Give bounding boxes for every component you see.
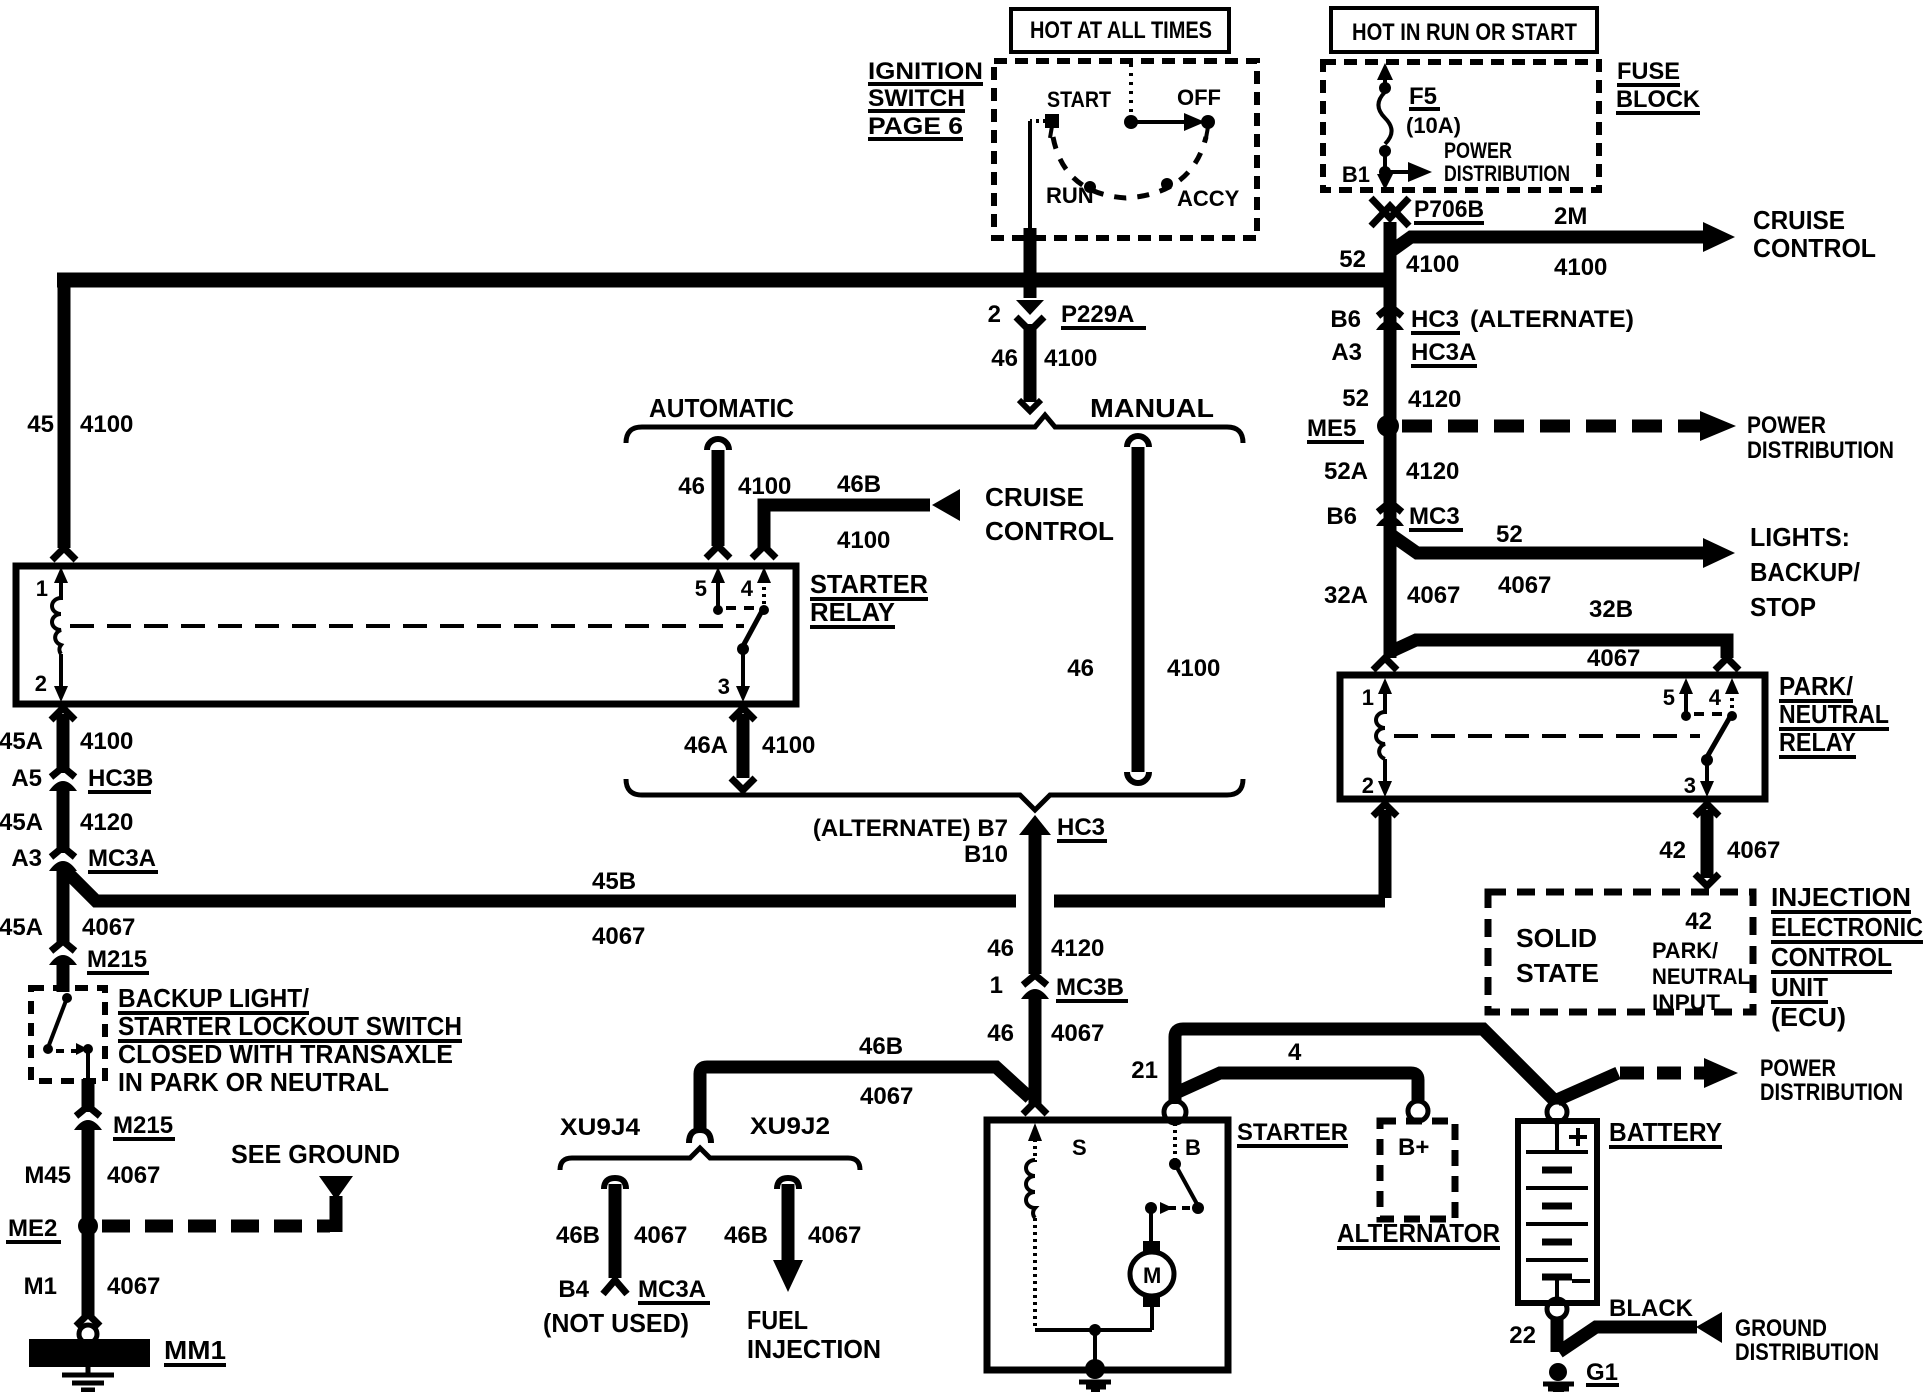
- svg-text:SOLID: SOLID: [1516, 923, 1597, 953]
- svg-text:HC3: HC3: [1057, 814, 1105, 841]
- svg-text:FUSE: FUSE: [1617, 58, 1680, 85]
- svg-text:(ALTERNATE) B7: (ALTERNATE) B7: [813, 815, 1008, 842]
- svg-text:SWITCH: SWITCH: [868, 85, 965, 112]
- svg-text:ALTERNATOR: ALTERNATOR: [1337, 1218, 1500, 1248]
- ground MM1: [29, 1339, 150, 1367]
- wire branch 32B to relay pin 4: [1390, 640, 1727, 658]
- svg-text:4067: 4067: [634, 1222, 687, 1249]
- svg-text:46A: 46A: [684, 732, 728, 759]
- svg-text:2: 2: [1362, 773, 1374, 798]
- svg-text:45A: 45A: [0, 914, 43, 941]
- svg-text:BATTERY: BATTERY: [1609, 1117, 1722, 1147]
- svg-text:4: 4: [1288, 1039, 1302, 1066]
- connector HC3 lower: [1019, 815, 1051, 835]
- wire main vertical from P706B to park/neutral relay: [1384, 222, 1397, 658]
- connector P706B: [1371, 196, 1484, 226]
- svg-text:46: 46: [987, 935, 1014, 962]
- svg-text:5: 5: [695, 576, 707, 601]
- svg-text:46: 46: [1067, 655, 1094, 682]
- starter motor M: [1149, 1208, 1153, 1247]
- svg-text:1: 1: [990, 972, 1003, 999]
- label BACKUP LIGHT / STARTER LOCKOUT SWITCH ...: [118, 983, 462, 1097]
- svg-text:STARTER: STARTER: [1237, 1119, 1348, 1146]
- wire dashed to power distribution: [1402, 420, 1700, 433]
- svg-text:4100: 4100: [1406, 251, 1459, 278]
- svg-text:MC3A: MC3A: [88, 845, 156, 872]
- pin B node: [1164, 1101, 1186, 1123]
- battery plates: [1555, 1122, 1559, 1150]
- svg-text:1: 1: [36, 576, 48, 601]
- wire to motor bottom: [1035, 1328, 1152, 1332]
- starter internal ground: [1093, 1330, 1097, 1362]
- switch contacts: [62, 993, 72, 1003]
- svg-text:IN PARK OR NEUTRAL: IN PARK OR NEUTRAL: [118, 1067, 389, 1097]
- svg-text:CONTROL: CONTROL: [985, 516, 1114, 546]
- node: [1379, 82, 1391, 94]
- svg-text:1: 1: [1362, 685, 1374, 710]
- wire below switch: [82, 1079, 95, 1112]
- svg-text:M1: M1: [24, 1273, 57, 1300]
- svg-text:ACCY: ACCY: [1177, 186, 1240, 211]
- svg-text:4100: 4100: [1044, 345, 1097, 372]
- svg-text:4067: 4067: [1587, 645, 1640, 672]
- svg-text:ME5: ME5: [1307, 415, 1356, 442]
- svg-text:GROUND: GROUND: [1735, 1315, 1827, 1342]
- svg-text:PARK/: PARK/: [1652, 938, 1718, 963]
- bracket lower (alternate join): [626, 779, 1243, 810]
- node: [1379, 145, 1391, 157]
- svg-text:M215: M215: [87, 946, 147, 973]
- svg-text:XU9J4: XU9J4: [560, 1114, 641, 1141]
- svg-text:(NOT USED): (NOT USED): [543, 1308, 689, 1338]
- svg-text:52: 52: [1339, 246, 1366, 273]
- dashed actuator linkage: [70, 624, 744, 628]
- svg-text:32B: 32B: [1589, 596, 1633, 623]
- svg-text:(ECU): (ECU): [1771, 1002, 1846, 1032]
- fuse block dashed box: [1323, 62, 1599, 190]
- cruise triangle: [932, 489, 960, 521]
- wire HC3 down crossing 45B: [1029, 830, 1042, 974]
- pin 2: [1383, 759, 1387, 783]
- svg-text:RUN: RUN: [1046, 183, 1094, 208]
- svg-text:46B: 46B: [556, 1222, 600, 1249]
- wire 21 from starter B to battery: [1175, 1029, 1555, 1104]
- starter box: [987, 1120, 1228, 1370]
- svg-text:A5: A5: [11, 765, 42, 792]
- svg-text:DISTRIBUTION: DISTRIBUTION: [1444, 161, 1570, 186]
- label box HOT AT ALL TIMES: [1011, 9, 1229, 52]
- svg-text:3: 3: [718, 674, 730, 699]
- svg-text:4067: 4067: [808, 1222, 861, 1249]
- svg-text:STARTER: STARTER: [810, 569, 928, 599]
- switch blade: [1707, 717, 1730, 757]
- connector P229A: [988, 300, 1146, 331]
- ignition rotor pivot node: [1124, 115, 1138, 129]
- svg-text:M215: M215: [113, 1112, 173, 1139]
- pin 2: [59, 654, 63, 687]
- svg-text:4100: 4100: [1167, 655, 1220, 682]
- connector at starter S: [1023, 1102, 1047, 1114]
- svg-text:ELECTRONIC: ELECTRONIC: [1771, 912, 1923, 942]
- svg-text:4100: 4100: [80, 728, 133, 755]
- node ACCY: [1161, 178, 1173, 190]
- svg-text:52A: 52A: [1324, 458, 1368, 485]
- svg-text:START: START: [1047, 87, 1111, 112]
- dashed contact link: [1694, 712, 1726, 716]
- svg-text:B10: B10: [964, 841, 1008, 868]
- label box HOT IN RUN OR START: [1331, 8, 1597, 52]
- node battery +: [1547, 1102, 1567, 1122]
- svg-text:B1: B1: [1342, 162, 1370, 187]
- label STARTER RELAY: [810, 569, 928, 629]
- svg-text:NEUTRAL: NEUTRAL: [1779, 699, 1889, 729]
- wire M45 4067: [82, 1126, 95, 1218]
- label FUSE BLOCK: [1616, 58, 1701, 115]
- svg-text:POWER: POWER: [1747, 412, 1826, 439]
- svg-text:4067: 4067: [1407, 582, 1460, 609]
- svg-text:STARTER LOCKOUT SWITCH: STARTER LOCKOUT SWITCH: [118, 1011, 462, 1041]
- svg-text:M45: M45: [24, 1162, 71, 1189]
- svg-text:2M: 2M: [1554, 203, 1587, 230]
- svg-text:4120: 4120: [1051, 935, 1104, 962]
- pin 5: [1679, 678, 1693, 694]
- svg-text:A3: A3: [11, 845, 42, 872]
- svg-text:HC3: HC3: [1411, 306, 1459, 333]
- svg-text:B6: B6: [1326, 503, 1357, 530]
- connector MC3: [1326, 502, 1463, 532]
- svg-text:RELAY: RELAY: [1779, 727, 1856, 757]
- pin 3: [1705, 760, 1709, 782]
- relay coil: [1376, 712, 1385, 759]
- svg-text:4067: 4067: [1051, 1020, 1104, 1047]
- svg-text:CONTROL: CONTROL: [1753, 233, 1876, 263]
- label PARK/ NEUTRAL RELAY: [1779, 671, 1889, 759]
- svg-text:4120: 4120: [1408, 386, 1461, 413]
- svg-text:46: 46: [991, 345, 1018, 372]
- svg-text:RELAY: RELAY: [810, 597, 895, 627]
- park/neutral relay box: [1340, 675, 1765, 799]
- svg-text:HOT AT ALL TIMES: HOT AT ALL TIMES: [1030, 17, 1212, 44]
- ground G1: [1549, 1363, 1567, 1381]
- svg-text:DISTRIBUTION: DISTRIBUTION: [1760, 1079, 1903, 1106]
- svg-text:XU9J2: XU9J2: [750, 1113, 830, 1140]
- svg-text:4: 4: [741, 576, 754, 601]
- pin 4: [1725, 678, 1739, 694]
- svg-text:STATE: STATE: [1516, 958, 1599, 988]
- svg-text:42: 42: [1659, 837, 1686, 864]
- wire dotted feed from box top: [1129, 64, 1133, 116]
- svg-text:IGNITION: IGNITION: [868, 58, 983, 85]
- svg-text:46: 46: [987, 1020, 1014, 1047]
- svg-text:3: 3: [1684, 773, 1696, 798]
- node RUN: [1084, 181, 1096, 193]
- svg-text:4120: 4120: [80, 809, 133, 836]
- svg-text:MC3B: MC3B: [1056, 974, 1124, 1001]
- connector at MM1: [76, 1314, 100, 1326]
- pin 1: [54, 567, 68, 583]
- svg-text:4067: 4067: [1498, 572, 1551, 599]
- starter relay box: [16, 566, 796, 704]
- svg-text:HOT IN RUN OR START: HOT IN RUN OR START: [1352, 19, 1577, 46]
- ignition switch dashed box: [994, 61, 1257, 238]
- svg-text:2: 2: [35, 671, 47, 696]
- svg-text:DISTRIBUTION: DISTRIBUTION: [1747, 437, 1894, 464]
- wire 46B 4067 to fuel injection: [777, 1178, 799, 1189]
- connector HC3B: [11, 765, 153, 794]
- svg-text:MANUAL: MANUAL: [1090, 393, 1214, 423]
- dashed actuator linkage: [1394, 734, 1700, 738]
- wire arrow to power distribution: [1385, 170, 1410, 174]
- wire battery node to power distribution: [1557, 1073, 1618, 1100]
- svg-text:B+: B+: [1398, 1134, 1429, 1161]
- svg-text:OFF: OFF: [1177, 85, 1221, 110]
- connector M215 lower: [74, 1106, 175, 1141]
- pin 5: [711, 567, 725, 583]
- wire 4 to alternator B+: [1178, 1073, 1418, 1100]
- node ME2: [78, 1216, 98, 1236]
- svg-text:F5: F5: [1409, 83, 1437, 110]
- see ground triangle: [319, 1176, 353, 1200]
- node B1 junction: [1379, 166, 1391, 178]
- svg-text:CRUISE: CRUISE: [1753, 205, 1845, 235]
- svg-text:BACKUP LIGHT/: BACKUP LIGHT/: [118, 983, 309, 1013]
- wire branch to ground distribution: [1559, 1327, 1697, 1352]
- node OFF terminal: [1201, 115, 1215, 129]
- svg-text:CLOSED WITH TRANSAXLE: CLOSED WITH TRANSAXLE: [118, 1039, 453, 1069]
- svg-text:A3: A3: [1331, 339, 1362, 366]
- relay coil: [52, 598, 61, 654]
- svg-text:P706B: P706B: [1414, 196, 1484, 223]
- svg-text:PARK/: PARK/: [1779, 671, 1853, 701]
- svg-text:HC3B: HC3B: [88, 765, 153, 792]
- wire 46A 4100 from relay pin 3: [731, 708, 755, 720]
- svg-text:INPUT: INPUT: [1652, 990, 1721, 1015]
- svg-text:52: 52: [1342, 385, 1369, 412]
- svg-text:4067: 4067: [107, 1273, 160, 1300]
- svg-text:4067: 4067: [592, 923, 645, 950]
- starter solenoid coil: [1033, 1139, 1037, 1162]
- svg-text:DISTRIBUTION: DISTRIBUTION: [1735, 1339, 1879, 1366]
- svg-text:32A: 32A: [1324, 582, 1368, 609]
- svg-text:4067: 4067: [860, 1083, 913, 1110]
- svg-text:46B: 46B: [859, 1033, 903, 1060]
- wire rotor arm to OFF: [1131, 120, 1186, 124]
- svg-text:45B: 45B: [592, 868, 636, 895]
- svg-text:S: S: [1072, 1135, 1087, 1160]
- connector MC3B: [990, 972, 1128, 1003]
- svg-text:MC3A: MC3A: [638, 1276, 706, 1303]
- wire dashed to see ground: [102, 1220, 330, 1233]
- svg-text:4100: 4100: [837, 527, 890, 554]
- svg-text:HC3A: HC3A: [1411, 339, 1476, 366]
- wire branch to lights backup/stop: [1390, 534, 1705, 553]
- svg-text:4100: 4100: [1554, 254, 1607, 281]
- svg-text:SEE GROUND: SEE GROUND: [231, 1139, 400, 1169]
- svg-text:INJECTION: INJECTION: [747, 1334, 881, 1364]
- svg-text:POWER: POWER: [1444, 138, 1512, 163]
- wire main horizontal bus 45/4100: [57, 273, 1390, 288]
- connector M215 upper: [49, 941, 149, 975]
- wire 46 4067 down to starter: [1029, 995, 1042, 1104]
- wire left vertical drop: [58, 280, 71, 548]
- svg-text:AUTOMATIC: AUTOMATIC: [649, 393, 794, 423]
- svg-text:INJECTION: INJECTION: [1771, 882, 1911, 912]
- dashed contact link: [726, 606, 758, 610]
- svg-text:46B: 46B: [837, 471, 881, 498]
- svg-text:G1: G1: [1586, 1359, 1618, 1386]
- connector HC3 / HC3A: [1330, 306, 1634, 368]
- svg-text:FUEL: FUEL: [747, 1305, 808, 1335]
- starter switch: [1173, 1123, 1177, 1160]
- connector below pin 2: [51, 708, 75, 720]
- svg-text:CONTROL: CONTROL: [1771, 942, 1892, 972]
- svg-text:5: 5: [1663, 685, 1675, 710]
- svg-text:4067: 4067: [1727, 837, 1780, 864]
- svg-text:UNIT: UNIT: [1771, 972, 1828, 1002]
- svg-text:22: 22: [1509, 1322, 1536, 1349]
- connector at relay pin 1: [1373, 658, 1397, 670]
- svg-text:21: 21: [1131, 1057, 1158, 1084]
- node START terminal: [1045, 114, 1059, 128]
- pin S arrow: [1028, 1123, 1042, 1141]
- wire into lockout switch: [57, 961, 70, 992]
- bracket xu9j: [560, 1148, 860, 1170]
- svg-text:4100: 4100: [80, 411, 133, 438]
- wire 46B 4067 to MC3A not used: [604, 1178, 626, 1189]
- svg-text:BLOCK: BLOCK: [1616, 86, 1701, 113]
- wire 45A 4100: [57, 714, 70, 773]
- svg-text:CRUISE: CRUISE: [985, 482, 1084, 512]
- svg-text:NEUTRAL: NEUTRAL: [1652, 964, 1750, 989]
- pin 4: [757, 567, 771, 583]
- svg-text:46: 46: [678, 473, 705, 500]
- svg-text:LIGHTS:: LIGHTS:: [1750, 522, 1850, 552]
- svg-text:4067: 4067: [82, 914, 135, 941]
- label INJECTION ELECTRONIC CONTROL UNIT (ECU): [1771, 882, 1923, 1032]
- wire 45B branch to park/neutral relay: [64, 869, 1016, 901]
- wire manual side 46 4100: [1127, 436, 1149, 447]
- wire cruise control branch to relay pin 4: [764, 505, 930, 550]
- svg-text:4100: 4100: [738, 473, 791, 500]
- svg-text:4067: 4067: [107, 1162, 160, 1189]
- svg-text:B6: B6: [1330, 306, 1361, 333]
- bracket automatic/manual: [626, 415, 1243, 443]
- svg-text:(10A): (10A): [1406, 113, 1461, 138]
- connector at starter relay pin 1: [52, 548, 76, 560]
- svg-text:45: 45: [27, 411, 54, 438]
- wire START to P229A: [1030, 119, 1046, 123]
- svg-text:4: 4: [1709, 685, 1722, 710]
- wire branch to cruise control: [1390, 237, 1705, 252]
- pin 3: [741, 649, 745, 687]
- wire 46B branch to fuel injection group: [700, 1067, 1030, 1130]
- injection ECU dashed box: [1488, 892, 1753, 1012]
- connector at relay pin 4: [1715, 658, 1739, 670]
- connector MC3A: [11, 845, 158, 874]
- pin arrow out of fuse block bottom: [1377, 174, 1393, 190]
- svg-text:ME2: ME2: [8, 1215, 57, 1242]
- svg-text:42: 42: [1685, 908, 1712, 935]
- wire 22 to ground: [1551, 1317, 1564, 1352]
- wire M1 4067: [82, 1234, 95, 1316]
- label IGNITION SWITCH PAGE 6: [868, 58, 983, 141]
- pin arrow into fuse block top: [1377, 63, 1393, 80]
- lockout switch dashed box: [31, 988, 105, 1081]
- node battery -: [1547, 1299, 1567, 1319]
- svg-text:4120: 4120: [1406, 458, 1459, 485]
- wire park relay pin 2 down to 45B: [1373, 804, 1397, 816]
- node alternator B+: [1408, 1101, 1428, 1121]
- svg-text:P229A: P229A: [1061, 301, 1134, 328]
- fuse F5 element: [1379, 92, 1392, 144]
- wire 45A 4120: [57, 787, 70, 853]
- svg-text:B4: B4: [558, 1276, 589, 1303]
- svg-text:MM1: MM1: [164, 1335, 226, 1365]
- node ME5: [1377, 415, 1399, 437]
- wire 45A 4067: [57, 867, 70, 945]
- svg-text:B: B: [1185, 1135, 1201, 1160]
- svg-text:45A: 45A: [0, 728, 43, 755]
- svg-text:(ALTERNATE): (ALTERNATE): [1470, 306, 1634, 333]
- pin 1: [1378, 678, 1392, 694]
- alternator dashed box: [1380, 1121, 1455, 1219]
- switch blade: [743, 611, 762, 646]
- svg-text:PAGE 6: PAGE 6: [868, 113, 963, 140]
- svg-text:BACKUP/: BACKUP/: [1750, 557, 1860, 587]
- svg-text:2: 2: [988, 301, 1001, 328]
- svg-text:52: 52: [1496, 521, 1523, 548]
- svg-text:BLACK: BLACK: [1609, 1295, 1694, 1322]
- svg-text:45A: 45A: [0, 809, 43, 836]
- wire drop to relay pin 5: [707, 439, 729, 450]
- svg-text:POWER: POWER: [1760, 1055, 1836, 1082]
- label + -: [1576, 1128, 1580, 1146]
- wire into battery +: [1551, 1093, 1564, 1104]
- svg-text:STOP: STOP: [1750, 592, 1816, 622]
- wire 46 4100 to bracket: [1024, 324, 1037, 402]
- svg-text:MC3: MC3: [1409, 503, 1460, 530]
- svg-text:M: M: [1143, 1263, 1161, 1288]
- dashed rotor travel arc: [1053, 137, 1206, 198]
- wire park relay pin 3 down to ECU: [1695, 804, 1719, 816]
- svg-text:4100: 4100: [762, 732, 815, 759]
- battery box: [1518, 1121, 1597, 1303]
- svg-text:46B: 46B: [724, 1222, 768, 1249]
